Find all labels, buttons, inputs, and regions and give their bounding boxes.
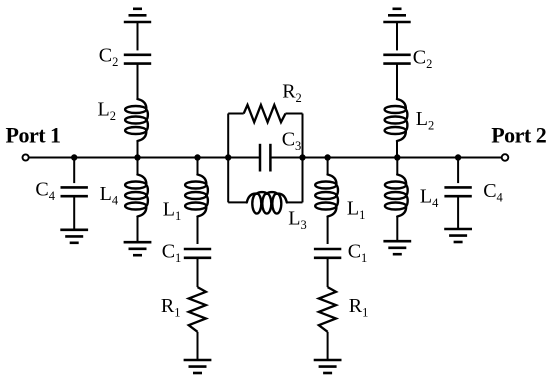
wire box right vertical [302, 114, 304, 203]
port 2 terminal [502, 154, 509, 161]
ground under R1 left [184, 360, 212, 373]
node dot C4 right [455, 154, 461, 160]
node dot box left [225, 154, 231, 160]
svg-text:Port 2: Port 2 [491, 122, 547, 147]
svg-text:Port 1: Port 1 [6, 122, 61, 147]
wire main to C4 left [73, 158, 75, 184]
capacitor C2 right [383, 55, 410, 64]
capacitor C1 left [184, 249, 211, 258]
wire R1 to ground left [197, 332, 199, 360]
ground (top right, inverted) [383, 9, 410, 22]
node dot L2/L4 left [134, 154, 140, 160]
node dot L1 left [194, 154, 200, 160]
node dot L1 right [324, 154, 330, 160]
wire main horizontal right of C3 [270, 157, 501, 159]
wire bottom rail right segment [287, 201, 303, 203]
node dot C4 left [71, 154, 77, 160]
wire bottom rail left segment [228, 201, 247, 203]
capacitor C3 [260, 144, 270, 172]
ground under R1 right [314, 360, 342, 373]
wire C2 to L2 left [137, 64, 139, 99]
ground under L4 right [383, 241, 411, 254]
node dot box right [299, 154, 305, 160]
resistor R1 right [319, 287, 336, 332]
wire main to L1 left [197, 158, 199, 175]
resistor R1 left [189, 287, 206, 332]
wire C1 to R1 left [197, 258, 199, 287]
wire main horizontal left of C3 [29, 157, 260, 159]
inductor L3 [247, 192, 287, 214]
inductor L4 right [385, 175, 408, 217]
inductor L1 right [315, 175, 338, 217]
wire C4 to ground right [457, 196, 459, 229]
ground under C4 right [444, 229, 472, 242]
wire main to L1 right [327, 158, 329, 175]
wire main to C4 right [457, 158, 459, 184]
wire box left vertical [227, 114, 229, 203]
ground (top left, inverted) [124, 9, 151, 22]
capacitor C4 left [60, 187, 87, 196]
port 1 terminal [23, 154, 29, 160]
wire C1 to R1 right [327, 258, 329, 287]
wire C4 to ground left [73, 196, 75, 230]
wire L1 to C1 left [197, 217, 199, 245]
inductor L2 right [385, 99, 408, 141]
inductor L1 left [185, 175, 208, 217]
capacitor C2 left [124, 55, 151, 64]
wire top rail right segment [286, 113, 303, 115]
node dot L2/L4 right [394, 154, 400, 160]
ground under L4 left [124, 242, 152, 255]
inductor L2 left [125, 99, 148, 141]
wire main to L4 right [396, 158, 398, 175]
wire top-left ground to C2 [137, 22, 139, 50]
wire C2 to L2 right [396, 64, 398, 99]
inductor L4 left [125, 175, 148, 217]
wire top rail left segment [228, 113, 244, 115]
wire L1 to C1 right [327, 217, 329, 245]
capacitor C4 right [444, 187, 471, 196]
wire L2 to main left [137, 141, 139, 158]
ground under C4 left [60, 230, 88, 243]
wire L2 to main right [396, 141, 398, 158]
wire main to L4 left [137, 158, 139, 175]
wire top-right ground to C2 [396, 22, 398, 50]
resistor R2 [244, 105, 286, 122]
capacitor C1 right [314, 249, 341, 258]
wire L4 to ground left [137, 217, 139, 243]
wire R1 to ground right [327, 332, 329, 360]
wire L4 to ground right [396, 217, 398, 242]
